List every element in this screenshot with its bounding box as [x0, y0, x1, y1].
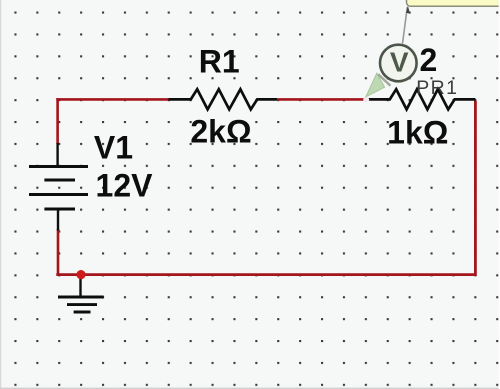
wire: battery bottom red vertical: [57, 229, 60, 276]
wire: right vertical + bottom red loop: [56, 101, 475, 275]
junction dot (node): [76, 270, 85, 279]
window edge lines: [0, 0, 1, 389]
resistor PR1: [367, 89, 475, 109]
svg-text:12V: 12V: [96, 168, 154, 204]
probe tip highlight patch: [363, 97, 369, 102]
svg-text:V: V: [390, 46, 409, 77]
wire: top-left horizontal red segment: [56, 98, 168, 101]
probe circle V: [380, 45, 417, 82]
svg-text:2kΩ: 2kΩ: [190, 114, 251, 150]
wire: middle red segment between R1 and probe point: [277, 98, 365, 101]
svg-text:V1: V1: [94, 130, 133, 166]
svg-text:PR1: PR1: [416, 77, 458, 99]
tooltip (clipped at top edge): [407, 0, 500, 6]
resistor R1: [169, 89, 278, 109]
probe leader arrowhead: [406, 6, 410, 13]
probe needle: [366, 73, 385, 97]
ground: [58, 275, 104, 312]
svg-text:2: 2: [420, 42, 438, 78]
svg-text:R1: R1: [199, 43, 240, 79]
svg-text:1kΩ: 1kΩ: [387, 114, 448, 150]
probe needle ferrule streak: [378, 74, 390, 86]
battery V1: [29, 143, 88, 231]
probe leader line: [403, 7, 408, 44]
wire: left vertical red from top corner down: [56, 98, 59, 144]
